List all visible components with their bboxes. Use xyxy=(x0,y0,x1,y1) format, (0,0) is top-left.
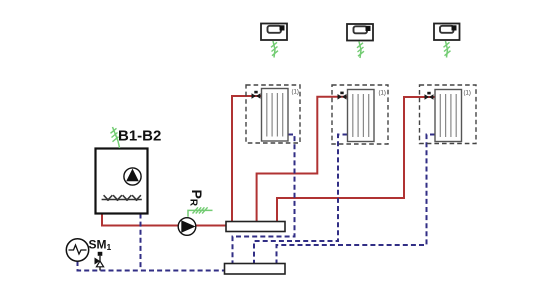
radiator zone box 2 xyxy=(332,85,388,144)
control signal flash thermostat 3 xyxy=(444,41,451,58)
supply manifold xyxy=(226,222,285,232)
thermostat 2 xyxy=(347,24,373,41)
radiator 2 xyxy=(348,90,375,142)
riser 1 (supply to radiator 1) xyxy=(232,96,262,222)
control signal flash to pump PR xyxy=(188,207,213,217)
sensor SM1 xyxy=(66,239,88,261)
control signal flash thermostat 2 xyxy=(357,42,364,59)
boiler return pipe xyxy=(140,214,142,270)
riser 3 (supply to radiator 3) xyxy=(277,97,435,222)
label PR xyxy=(188,190,206,207)
thermostat 1 xyxy=(261,24,287,41)
radiator zone box 3 xyxy=(420,85,477,144)
control signal flash thermostat 1 xyxy=(271,41,278,58)
return pipe radiator 2 xyxy=(254,135,348,264)
return pipe SM1 to return manifold xyxy=(78,261,225,271)
return pipe radiator 1 xyxy=(233,135,295,264)
radiator zone box 1 xyxy=(246,85,300,143)
svg-text:B1-B2: B1-B2 xyxy=(118,128,161,145)
radiator valve 2 xyxy=(338,92,347,100)
boiler burner symbol xyxy=(102,195,142,200)
svg-text:(1): (1) xyxy=(379,91,386,97)
radiator valve 3 xyxy=(425,92,434,100)
svg-text:PR: PR xyxy=(188,190,206,207)
control signal flash to boiler (B1-B2) xyxy=(111,127,120,148)
supply pipe boiler to supply manifold xyxy=(102,212,226,226)
return pipe radiator 3 xyxy=(277,135,436,264)
svg-text:(1): (1) xyxy=(292,90,299,96)
radiator 3 xyxy=(435,90,462,142)
radiator 1 xyxy=(262,89,289,142)
valve with actuator near SM1 xyxy=(95,252,104,271)
boiler pump xyxy=(124,168,141,185)
svg-text:(1): (1) xyxy=(464,91,471,97)
svg-text:SM1: SM1 xyxy=(89,238,112,253)
return manifold xyxy=(225,264,286,275)
radiator valve 1 xyxy=(252,91,261,99)
thermostat 3 xyxy=(434,24,460,41)
boiler xyxy=(96,149,148,214)
pump PR xyxy=(178,218,196,236)
riser 2 (supply to radiator 2) xyxy=(257,97,348,222)
